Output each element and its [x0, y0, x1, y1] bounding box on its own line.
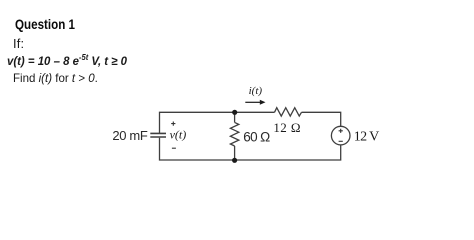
current arrow i(t)	[245, 101, 260, 103]
svg-text:i(t): i(t)	[249, 85, 263, 97]
svg-text:60 Ω: 60 Ω	[243, 129, 270, 144]
wire top-right segment	[302, 112, 341, 126]
node A junction dot top	[232, 110, 237, 115]
heading Question 1	[15, 18, 75, 32]
equation v(t) = 10 - 8 e^-5t V, t >= 0	[7, 54, 127, 67]
capacitor C1 20 mF plates	[150, 133, 166, 137]
wire middle branch top stub	[234, 112, 236, 122]
voltage source minus sign	[339, 140, 343, 142]
voltage source plus sign	[339, 129, 343, 133]
svg-text:20 mF: 20 mF	[112, 128, 148, 143]
voltage source V1 circle	[331, 126, 350, 145]
wire middle branch bottom stub	[234, 146, 236, 160]
resistor R2 12 ohm zigzag	[275, 108, 302, 116]
svg-text:v(t): v(t)	[170, 127, 187, 141]
node B junction dot bottom	[232, 158, 237, 163]
capacitor plus polarity	[171, 122, 175, 126]
svg-text:12 V: 12 V	[354, 130, 379, 145]
text Find i(t) for t > 0.	[13, 72, 98, 84]
text If:	[13, 38, 24, 51]
resistor R1 60 ohm zigzag	[230, 122, 238, 146]
svg-text:12 Ω: 12 Ω	[273, 120, 301, 135]
capacitor minus polarity	[172, 147, 176, 149]
wire top-left segment	[160, 112, 275, 133]
wire bottom	[160, 138, 341, 160]
